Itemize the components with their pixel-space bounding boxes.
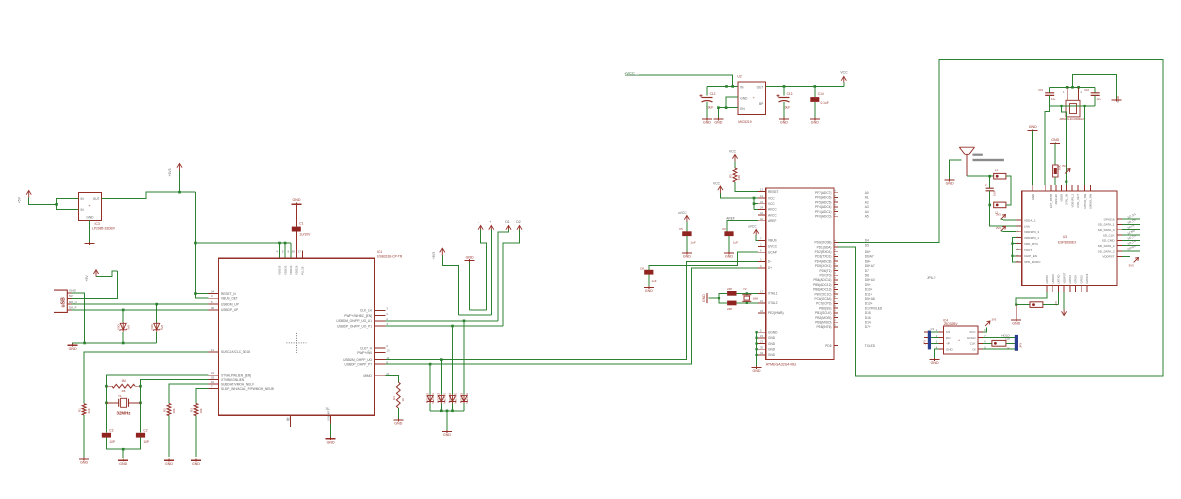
svg-text:SUSCLK/CLC_3018: SUSCLK/CLC_3018 bbox=[221, 350, 250, 354]
ground above C1 bbox=[292, 198, 302, 206]
ground under flash bbox=[930, 358, 940, 365]
ground near usb bbox=[68, 344, 78, 351]
wire vddpst arrow bbox=[1063, 292, 1065, 309]
wire VDD stub a bbox=[279, 243, 281, 258]
svg-text:ESP8266EX: ESP8266EX bbox=[1058, 241, 1077, 245]
svg-text:RESET_N: RESET_N bbox=[221, 292, 236, 296]
capacitor C3 10P bbox=[102, 428, 115, 444]
svg-text:VCC: VCC bbox=[713, 182, 721, 186]
svg-text:1uF: 1uF bbox=[651, 279, 656, 283]
svg-text:D17/RXLED: D17/RXLED bbox=[865, 306, 883, 310]
wire vcc rail stub2 bbox=[754, 203, 758, 205]
wire to diode D1 bbox=[122, 310, 124, 322]
wire esd4 drop bbox=[452, 326, 454, 395]
svg-text:BP: BP bbox=[759, 102, 763, 106]
resistor R2 10K bbox=[163, 403, 176, 415]
junction u2 tie bbox=[725, 106, 728, 109]
crystal Y1 32MHz bbox=[106, 394, 140, 415]
svg-text:PF1(ADC1): PF1(ADC1) bbox=[815, 210, 831, 214]
wire pin7 to R3 bbox=[196, 389, 208, 404]
svg-text:30: 30 bbox=[211, 306, 215, 310]
junction xtal rail c bbox=[1077, 86, 1080, 89]
wire +3V3 arrow stub bbox=[179, 171, 181, 193]
wire c13 riser bbox=[783, 86, 785, 95]
svg-text:3V3: 3V3 bbox=[1129, 264, 1135, 268]
wire usb 5v bbox=[72, 271, 118, 299]
svg-text:ATMEGA32U4-MU: ATMEGA32U4-MU bbox=[766, 363, 797, 367]
svg-text:VCC: VCC bbox=[729, 150, 737, 154]
ground under bead bbox=[1011, 319, 1021, 326]
svg-text:R3: R3 bbox=[190, 408, 194, 412]
svg-text:D2: D2 bbox=[516, 220, 521, 224]
svg-text:24: 24 bbox=[211, 290, 215, 294]
power arrow uVCC pin bbox=[748, 225, 759, 236]
ground under C13 bbox=[779, 118, 789, 125]
svg-text:C5: C5 bbox=[679, 227, 683, 231]
svg-text:AREF: AREF bbox=[768, 219, 777, 223]
svg-text:PE6(INT6): PE6(INT6) bbox=[816, 325, 831, 329]
U3 left pins bbox=[1016, 218, 1041, 264]
svg-text:GND: GND bbox=[714, 121, 722, 125]
wire vcc rail bbox=[753, 198, 755, 209]
junction caps gnd bbox=[122, 448, 125, 451]
wire +5V to IC3 IN bbox=[29, 198, 57, 205]
svg-text:VDD_RTC: VDD_RTC bbox=[1024, 242, 1039, 246]
mcu IC2 ATMEGA32U4 body bbox=[766, 188, 834, 367]
svg-text:PF6(ADC6): PF6(ADC6) bbox=[815, 196, 831, 200]
svg-text:GND: GND bbox=[443, 433, 451, 437]
wire R2 to gnd bbox=[168, 416, 170, 458]
ground under esd diodes bbox=[442, 430, 452, 437]
svg-text:D8+A7: D8+A7 bbox=[865, 264, 875, 268]
wire IC1 pin to D2 line bbox=[385, 325, 503, 327]
svg-text:USBDP_UP: USBDP_UP bbox=[221, 308, 238, 312]
junction y1 left bbox=[105, 402, 108, 405]
IC1 pin SUSCLK bbox=[208, 348, 250, 354]
svg-text:C6: C6 bbox=[722, 227, 726, 231]
svg-text:IC1: IC1 bbox=[377, 250, 382, 254]
wire C6 gnd bbox=[728, 236, 730, 251]
junction usb gnd bbox=[83, 342, 86, 345]
usb net labels bbox=[69, 289, 77, 310]
svg-text:GND: GND bbox=[1051, 138, 1059, 142]
junction esd3 bbox=[463, 320, 466, 323]
svg-text:+3V3: +3V3 bbox=[432, 252, 436, 260]
svg-text:GND: GND bbox=[780, 121, 788, 125]
junction r6 left bbox=[105, 385, 108, 388]
svg-text:0.1uF: 0.1uF bbox=[821, 101, 829, 105]
svg-text:PF7(ADC7): PF7(ADC7) bbox=[815, 191, 831, 195]
svg-text:D-: D- bbox=[768, 260, 771, 264]
wire flash hold bbox=[983, 337, 1015, 339]
wire xtal gnd bbox=[709, 297, 720, 299]
svg-text:Y2: Y2 bbox=[743, 287, 747, 291]
svg-text:OUT: OUT bbox=[757, 86, 764, 90]
svg-text:GND: GND bbox=[768, 342, 776, 346]
ground under C8 bbox=[644, 286, 654, 293]
capacitor C14 0.1uF bbox=[810, 92, 828, 105]
wire c14 riser bbox=[814, 86, 816, 97]
wire usb gnd to symbol bbox=[73, 343, 85, 345]
svg-text:PD5(XCK1): PD5(XCK1) bbox=[815, 264, 832, 268]
svg-text:USBDP_OH/PP_UO_P1: USBDP_OH/PP_UO_P1 bbox=[337, 324, 372, 328]
svg-text:SD_DATA_0: SD_DATA_0 bbox=[1098, 228, 1115, 232]
svg-text:D5: D5 bbox=[865, 243, 869, 247]
svg-text:SUBDAT/VMOH_NELV: SUBDAT/VMOH_NELV bbox=[221, 382, 255, 386]
svg-text:RESET: RESET bbox=[768, 190, 779, 194]
svg-text:VDDA_1: VDDA_1 bbox=[1024, 218, 1036, 222]
ferrite bead FB1 bbox=[1016, 302, 1058, 308]
svg-text:R5: R5 bbox=[729, 174, 733, 178]
svg-text:CG0603: CG0603 bbox=[438, 392, 441, 402]
svg-text:CS: CS bbox=[946, 330, 950, 334]
svg-text:XTVBIKGNLIEN: XTVBIKGNLIEN bbox=[221, 378, 245, 382]
IC1 bottom pin NC bbox=[286, 415, 290, 427]
wire jp2 do bbox=[931, 337, 938, 339]
IC1 left pins top group bbox=[208, 290, 238, 313]
resistor R1 22K bbox=[78, 404, 91, 415]
svg-text:AREF: AREF bbox=[726, 216, 735, 220]
wire IC3 OUT to +3V3 rail bbox=[102, 192, 196, 199]
svg-text:+3V3: +3V3 bbox=[168, 168, 172, 176]
svg-text:LP2985-33DBV: LP2985-33DBV bbox=[92, 227, 116, 231]
svg-text:GPIO15: GPIO15 bbox=[1085, 273, 1089, 283]
resistor R5 10K pullup bbox=[729, 168, 742, 182]
net label HOLD bbox=[1001, 333, 1010, 337]
junction strap bbox=[1065, 181, 1067, 183]
wire esd diode D6 bottom bbox=[463, 404, 465, 411]
wire UCAP to C8 bbox=[649, 252, 758, 270]
wire uart1 long bbox=[385, 261, 765, 359]
wire to IN pin 3 bbox=[57, 204, 79, 209]
svg-text:+: + bbox=[489, 220, 491, 224]
wire MIMO to R4 bbox=[385, 376, 398, 382]
svg-text:C16: C16 bbox=[1084, 88, 1089, 92]
svg-text:SD_DATA_3: SD_DATA_3 bbox=[1098, 244, 1115, 248]
svg-text:PB7(OC1C): PB7(OC1C) bbox=[814, 292, 831, 296]
svg-text:L1: L1 bbox=[995, 168, 998, 172]
svg-text:3V3: 3V3 bbox=[996, 213, 1001, 217]
svg-text:GND: GND bbox=[645, 289, 653, 293]
svg-text:PB3(MISO): PB3(MISO) bbox=[815, 321, 831, 325]
junction chip en bbox=[1011, 255, 1013, 257]
IC1 bottom pin VDD bbox=[325, 407, 330, 424]
svg-text:+: + bbox=[753, 96, 755, 100]
svg-text:GND: GND bbox=[683, 255, 691, 259]
svg-text:12+: 12+ bbox=[1051, 97, 1056, 101]
svg-text:C3: C3 bbox=[931, 327, 935, 331]
svg-text:SLDP_INH/ACAL_P/PWMGH_NEUB: SLDP_INH/ACAL_P/PWMGH_NEUB bbox=[221, 387, 274, 391]
voltage regulator IC3 LP2985-33DBV bbox=[78, 192, 115, 230]
svg-text:1uF: 1uF bbox=[733, 241, 738, 245]
svg-text:R1: R1 bbox=[78, 408, 82, 412]
svg-text:GND: GND bbox=[946, 181, 954, 185]
svg-text:U0RXD: U0RXD bbox=[1051, 274, 1055, 283]
junction vcc pin1 bbox=[753, 197, 756, 200]
capacitor C16 right xtal bbox=[1084, 87, 1101, 106]
wire esp xtal bottom rail bbox=[1050, 105, 1096, 107]
svg-text:PD5: PD5 bbox=[825, 344, 831, 348]
label 270 bead bbox=[1054, 301, 1058, 306]
svg-text:USB3318-CP-TR: USB3318-CP-TR bbox=[377, 255, 403, 259]
svg-text:GND: GND bbox=[86, 216, 94, 220]
junction +3V3 rail bbox=[178, 191, 181, 194]
svg-text:PD0(OC0B): PD0(OC0B) bbox=[814, 241, 831, 245]
svg-text:XTAL_OUT: XTAL_OUT bbox=[1076, 194, 1080, 208]
svg-text:V3O: V3O bbox=[117, 323, 121, 330]
wire vcc to vcc pins bbox=[720, 193, 758, 198]
svg-text:GND: GND bbox=[1031, 194, 1035, 200]
svg-text:D7+: D7+ bbox=[865, 325, 871, 329]
wire to diode D2 bbox=[156, 304, 158, 322]
wire d2 bottom bbox=[156, 332, 158, 343]
svg-text:Y1: Y1 bbox=[118, 394, 122, 398]
wire 3V3 rail down to IC1 bbox=[194, 192, 196, 293]
junction u2 in a bbox=[731, 85, 734, 88]
wire usb gnd bbox=[72, 293, 85, 343]
ground under IC2 bbox=[752, 366, 762, 373]
svg-text:D8_U: D8_U bbox=[69, 300, 77, 304]
svg-text:GND: GND bbox=[753, 369, 761, 373]
power symbol +3V3 mid bbox=[432, 248, 445, 259]
svg-text:GND: GND bbox=[1116, 96, 1120, 102]
svg-text:PF4(ADC4): PF4(ADC4) bbox=[815, 205, 831, 209]
svg-text:UCAP: UCAP bbox=[768, 251, 777, 255]
svg-text:CLK: CLK bbox=[970, 342, 976, 346]
svg-text:A4: A4 bbox=[865, 210, 869, 214]
wire uVCC to C5 bbox=[686, 222, 688, 232]
IC2 left pins usb bbox=[758, 237, 778, 271]
svg-text:U0TXD: U0TXD bbox=[1057, 275, 1061, 284]
svg-text:1M: 1M bbox=[121, 379, 126, 383]
power arrow 3V3 right bbox=[1129, 258, 1139, 268]
svg-text:VCC: VCC bbox=[969, 330, 976, 334]
esd diode D4 bbox=[438, 392, 447, 403]
svg-text:D13+: D13+ bbox=[865, 302, 873, 306]
svg-text:VDD3P3_2: VDD3P3_2 bbox=[1070, 194, 1074, 208]
wire R7 to chip bbox=[1054, 177, 1056, 185]
resistor R4 1K bbox=[392, 382, 405, 408]
capacitor C15 left xtal bbox=[1038, 87, 1056, 106]
wire C1 to IC1 pin bbox=[296, 232, 298, 259]
IC1 left pins bottom group bbox=[208, 371, 273, 391]
wire jp2 cs bbox=[931, 331, 938, 333]
connector JP3 blue bbox=[1015, 335, 1023, 351]
usb pin stubs bbox=[67, 293, 71, 310]
junction ant cap bbox=[988, 175, 991, 178]
svg-text:GND: GND bbox=[768, 336, 776, 340]
wire esd gnd rail bbox=[430, 410, 464, 412]
svg-text:GPIO16: GPIO16 bbox=[1104, 217, 1115, 221]
wire IC1 pin to D1 line bbox=[385, 320, 497, 322]
junction diode d2 tap bbox=[155, 303, 158, 306]
ground under IC3 bbox=[84, 242, 94, 245]
svg-text:17: 17 bbox=[298, 250, 302, 254]
power symbol VCC reset bbox=[729, 150, 738, 162]
svg-text:D15: D15 bbox=[865, 311, 871, 315]
svg-text:V3O: V3O bbox=[150, 323, 154, 330]
wire c13 gnd bbox=[783, 102, 785, 118]
capacitor C5 1uF uvcc bbox=[679, 227, 696, 245]
wire c14 gnd bbox=[814, 102, 816, 118]
svg-text:uSB: uSB bbox=[61, 297, 67, 308]
junction vcc pin2 bbox=[753, 202, 756, 205]
power arrow 3V3 flash bbox=[985, 318, 997, 326]
IC1 right pins group B bbox=[343, 344, 390, 366]
wire vcc rail stub3 bbox=[754, 208, 758, 210]
junction xtal1 bbox=[746, 292, 748, 294]
junction xtal rail a bbox=[1066, 86, 1069, 89]
svg-text:PD7(T0): PD7(T0) bbox=[819, 274, 831, 278]
capacitor C6 1uF aref bbox=[722, 227, 738, 245]
svg-text:GND: GND bbox=[768, 348, 776, 352]
junction xtal bot a bbox=[1060, 105, 1062, 107]
wire xtal caps join bbox=[719, 293, 727, 303]
svg-text:GND: GND bbox=[69, 289, 77, 293]
IC1 right pins group A bbox=[336, 307, 388, 329]
ground xtal rotated bbox=[702, 293, 707, 303]
svg-text:38: 38 bbox=[292, 250, 296, 254]
svg-text:C13: C13 bbox=[787, 92, 793, 96]
svg-text:26: 26 bbox=[325, 407, 329, 411]
svg-text:D16: D16 bbox=[865, 316, 871, 320]
wire gpio5 to bead bbox=[1016, 292, 1047, 305]
wire esp gnd pin bbox=[1032, 130, 1034, 185]
svg-text:GND: GND bbox=[119, 462, 127, 466]
capacitor C2 10P bbox=[136, 428, 149, 444]
wire u0txd down bbox=[1057, 292, 1059, 305]
wire XTAL2 to right rail bbox=[141, 380, 209, 433]
wire VCC rail to IC1 top pins bbox=[195, 242, 290, 244]
svg-text:29: 29 bbox=[211, 376, 215, 380]
wire TP1 down bbox=[481, 230, 487, 310]
wire rail to VBUS_DET bbox=[195, 294, 208, 299]
svg-text:OUT: OUT bbox=[93, 197, 100, 201]
wire esd gnd drop bbox=[446, 411, 448, 430]
svg-text:270: 270 bbox=[1054, 301, 1058, 306]
svg-text:PC6(OC3A): PC6(OC3A) bbox=[814, 297, 831, 301]
junction reset rail bbox=[194, 292, 197, 295]
power arrow 3V3 strap bbox=[1062, 164, 1070, 173]
wire xtal leg2 down bbox=[1084, 106, 1086, 185]
wire vdd rtc stub bbox=[1012, 243, 1016, 245]
wire gnd-u1 bridge bbox=[470, 309, 487, 311]
memory IC4 25Q32BV bbox=[943, 319, 978, 355]
wire R5 to RESET bbox=[735, 182, 758, 192]
junction xtal2 bbox=[746, 302, 748, 304]
ground esp xtal bbox=[1112, 96, 1122, 102]
wire TP2 down bbox=[490, 230, 492, 316]
svg-text:D6+: D6+ bbox=[865, 250, 871, 254]
wire +VCC to U2 bbox=[639, 75, 733, 86]
IC2 right pins ADC bbox=[815, 190, 869, 219]
ground under R1 bbox=[79, 457, 89, 464]
regulator U2 MIC5219 bbox=[737, 74, 765, 124]
capacitor C1 1UF/10V bbox=[292, 221, 311, 236]
wire c12 gnd bbox=[706, 102, 708, 118]
svg-text:PB4(ADC11): PB4(ADC11) bbox=[813, 278, 831, 282]
svg-text:MLC-05E: MLC-05E bbox=[466, 393, 469, 404]
svg-text:MLC-05E: MLC-05E bbox=[432, 393, 435, 404]
svg-text:12+: 12+ bbox=[1097, 97, 1102, 101]
diode D2 3V6 bbox=[150, 322, 164, 332]
svg-text:10K: 10K bbox=[737, 175, 741, 180]
svg-text:GND: GND bbox=[394, 422, 402, 426]
svg-text:PE2(HWB): PE2(HWB) bbox=[768, 311, 784, 315]
svg-text:GND: GND bbox=[703, 121, 711, 125]
capacitor C17 5.6P bbox=[985, 176, 996, 205]
svg-text:GND: GND bbox=[740, 96, 748, 100]
svg-text:PB2(MOSI): PB2(MOSI) bbox=[815, 316, 831, 320]
svg-text:A3: A3 bbox=[865, 205, 869, 209]
junction at VCC rail corner bbox=[194, 242, 197, 245]
junction on IC3 input bbox=[55, 203, 58, 206]
wire R4 to gnd bbox=[397, 408, 399, 419]
svg-text:CHIP_EN: CHIP_EN bbox=[1024, 254, 1037, 258]
svg-text:MIMO: MIMO bbox=[363, 374, 372, 378]
svg-text:GND: GND bbox=[165, 462, 173, 466]
U3 top pins bbox=[1031, 185, 1093, 209]
svg-text:D9+: D9+ bbox=[865, 283, 871, 287]
svg-text:VDD18: VDD18 bbox=[295, 265, 299, 275]
wire usb dplus bbox=[72, 309, 209, 311]
svg-text:GND: GND bbox=[725, 255, 733, 259]
pin stub nc top bbox=[302, 251, 304, 259]
wire VDD stub b bbox=[284, 243, 286, 258]
resistor R6 1M bbox=[106, 379, 140, 393]
svg-text:XTAL_IN: XTAL_IN bbox=[1065, 194, 1069, 205]
svg-text:1U/10V: 1U/10V bbox=[299, 233, 311, 237]
svg-text:TXLED: TXLED bbox=[865, 344, 876, 348]
test point D2 bbox=[516, 220, 522, 230]
wire c12 riser bbox=[706, 86, 708, 95]
svg-text:GND: GND bbox=[1012, 322, 1020, 326]
svg-text:GND: GND bbox=[1029, 125, 1037, 129]
IC1 crosshair origin bbox=[286, 333, 306, 353]
wire big loop bbox=[838, 59, 1163, 376]
svg-text:R2: R2 bbox=[163, 408, 167, 412]
connector JP2 blue bbox=[923, 327, 935, 349]
svg-text:U0TXD_SW: U0TXD_SW bbox=[1083, 194, 1087, 209]
svg-text:-/P: -/P bbox=[946, 342, 950, 346]
svg-text:10K: 10K bbox=[1058, 165, 1062, 170]
pin numbers top bbox=[276, 250, 301, 254]
svg-text:CG0603: CG0603 bbox=[460, 392, 463, 402]
svg-text:HOLD: HOLD bbox=[967, 336, 976, 340]
IC2 right pins PD PB bbox=[813, 239, 883, 330]
svg-text:MLC-05E: MLC-05E bbox=[443, 393, 446, 404]
IC4 origin cross bbox=[958, 339, 960, 343]
svg-text:SD_CLK: SD_CLK bbox=[1103, 233, 1115, 237]
svg-text:+: + bbox=[958, 339, 960, 343]
IC1 pin MIMO bbox=[363, 372, 390, 378]
junction bead bbox=[1015, 304, 1017, 306]
svg-text:VDD33: VDD33 bbox=[283, 265, 287, 275]
svg-text:TOUT: TOUT bbox=[1024, 248, 1032, 252]
svg-text:U0RXD_SW: U0RXD_SW bbox=[1089, 194, 1093, 209]
wire xtal2 row bbox=[737, 302, 758, 304]
wire u1 left leg to gnd bbox=[469, 262, 471, 310]
wire rail to RESET_N bbox=[195, 293, 208, 295]
capacitor C10 22P bbox=[727, 301, 737, 312]
wire xtal1 row bbox=[737, 292, 758, 294]
svg-text:CG0603: CG0603 bbox=[449, 392, 452, 402]
svg-text:D+: D+ bbox=[768, 266, 772, 270]
svg-text:22P: 22P bbox=[727, 287, 732, 291]
svg-text:RES12K: RES12K bbox=[1054, 194, 1058, 205]
svg-text:PWP+/W0: PWP+/W0 bbox=[357, 351, 372, 355]
svg-text:GND: GND bbox=[69, 347, 77, 351]
